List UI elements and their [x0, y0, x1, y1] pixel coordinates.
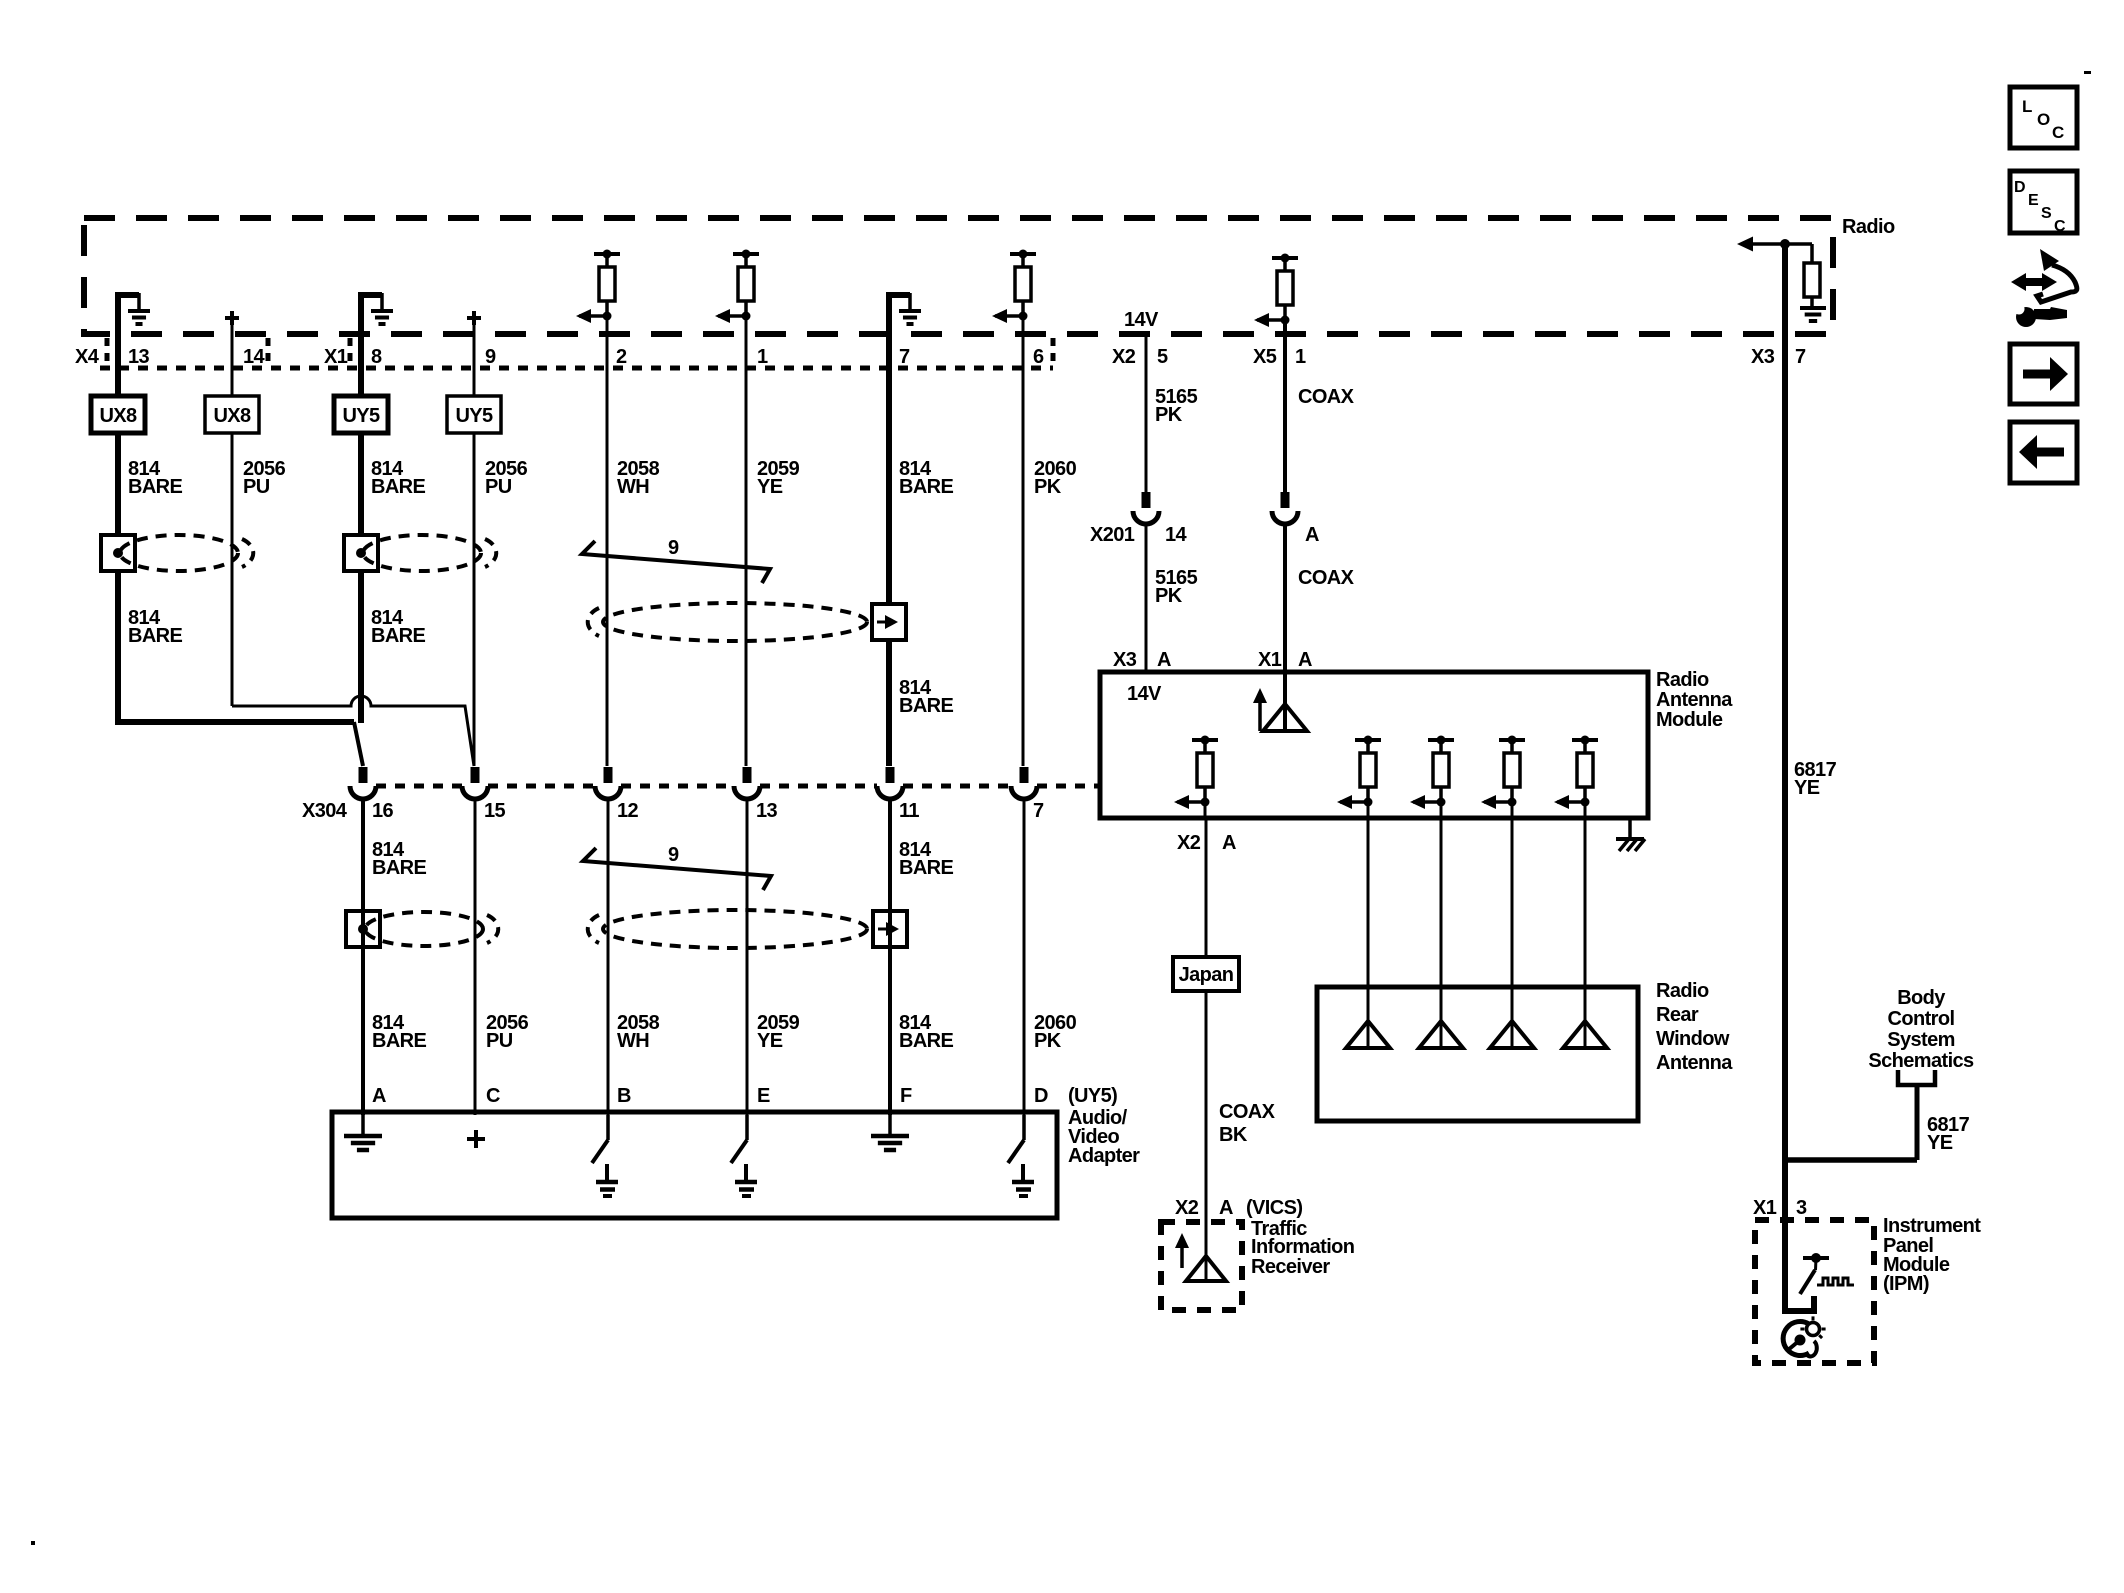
svg-text:A: A	[372, 1085, 386, 1107]
svg-text:BARE: BARE	[899, 857, 954, 879]
svg-text:Window: Window	[1656, 1028, 1730, 1050]
svg-text:UX8: UX8	[213, 405, 251, 427]
svg-text:A: A	[1305, 524, 1319, 546]
svg-text:BARE: BARE	[371, 625, 426, 647]
svg-text:COAX: COAX	[1298, 386, 1355, 408]
svg-text:COAX: COAX	[1298, 567, 1355, 589]
svg-text:YE: YE	[1794, 777, 1820, 799]
svg-text:9: 9	[485, 346, 496, 368]
svg-text:12: 12	[617, 800, 639, 822]
svg-text:A: A	[1298, 649, 1312, 671]
svg-text:Antenna: Antenna	[1656, 689, 1733, 711]
svg-text:YE: YE	[757, 1030, 783, 1052]
svg-text:D: D	[1034, 1085, 1048, 1107]
svg-text:BK: BK	[1219, 1124, 1248, 1146]
svg-text:WH: WH	[617, 476, 649, 498]
svg-text:WH: WH	[617, 1030, 649, 1052]
svg-text:7: 7	[899, 346, 910, 368]
svg-text:BARE: BARE	[372, 857, 427, 879]
svg-text:7: 7	[1795, 346, 1806, 368]
svg-text:14: 14	[1165, 524, 1188, 546]
svg-text:BARE: BARE	[372, 1030, 427, 1052]
svg-text:A: A	[1157, 649, 1171, 671]
svg-text:15: 15	[484, 800, 506, 822]
svg-text:D: D	[2014, 179, 2026, 196]
svg-text:X3: X3	[1751, 346, 1775, 368]
svg-text:B: B	[617, 1085, 631, 1107]
svg-text:COAX: COAX	[1219, 1101, 1276, 1123]
svg-text:L: L	[2022, 97, 2032, 116]
svg-text:5: 5	[1157, 346, 1168, 368]
svg-text:14: 14	[243, 346, 266, 368]
svg-text:BARE: BARE	[899, 1030, 954, 1052]
svg-text:8: 8	[371, 346, 382, 368]
svg-text:14V: 14V	[1127, 683, 1162, 705]
svg-text:X2: X2	[1175, 1197, 1199, 1219]
svg-text:X1: X1	[1753, 1197, 1777, 1219]
svg-text:S: S	[2041, 205, 2052, 222]
svg-text:O: O	[2037, 110, 2050, 129]
svg-text:PK: PK	[1034, 1030, 1062, 1052]
svg-text:BARE: BARE	[899, 476, 954, 498]
svg-text:Control: Control	[1888, 1008, 1955, 1030]
svg-text:BARE: BARE	[128, 476, 183, 498]
svg-text:Information: Information	[1251, 1236, 1354, 1258]
svg-text:PU: PU	[243, 476, 270, 498]
svg-text:X2: X2	[1112, 346, 1136, 368]
svg-text:14V: 14V	[1124, 309, 1159, 331]
svg-text:X1: X1	[1258, 649, 1282, 671]
svg-text:System: System	[1887, 1029, 1955, 1051]
svg-text:Module: Module	[1656, 709, 1723, 731]
svg-text:Radio: Radio	[1842, 216, 1895, 238]
svg-text:16: 16	[372, 800, 394, 822]
svg-text:(IPM): (IPM)	[1883, 1273, 1929, 1295]
svg-text:UX8: UX8	[99, 405, 137, 427]
svg-text:Schematics: Schematics	[1868, 1050, 1974, 1072]
svg-text:Rear: Rear	[1656, 1004, 1699, 1026]
svg-text:C: C	[2054, 218, 2066, 235]
svg-text:PK: PK	[1155, 585, 1183, 607]
svg-text:A: A	[1219, 1197, 1233, 1219]
svg-text:X1: X1	[324, 346, 348, 368]
svg-text:PU: PU	[485, 476, 512, 498]
svg-text:7: 7	[1033, 800, 1044, 822]
svg-text:Adapter: Adapter	[1068, 1145, 1140, 1167]
svg-text:UY5: UY5	[455, 405, 493, 427]
svg-text:11: 11	[899, 800, 919, 822]
svg-text:A: A	[1222, 832, 1236, 854]
svg-text:Radio: Radio	[1656, 980, 1709, 1002]
svg-text:X5: X5	[1253, 346, 1277, 368]
svg-text:UY5: UY5	[342, 405, 380, 427]
svg-text:YE: YE	[1927, 1132, 1953, 1154]
svg-text:1: 1	[757, 346, 768, 368]
svg-text:13: 13	[128, 346, 150, 368]
svg-text:1: 1	[1295, 346, 1306, 368]
svg-text:C: C	[486, 1085, 500, 1107]
svg-text:Instrument: Instrument	[1883, 1215, 1981, 1237]
svg-text:Radio: Radio	[1656, 669, 1709, 691]
svg-text:9: 9	[668, 844, 679, 866]
svg-text:2: 2	[616, 346, 627, 368]
svg-text:(UY5): (UY5)	[1068, 1085, 1117, 1107]
svg-text:PK: PK	[1155, 404, 1183, 426]
svg-text:Body: Body	[1897, 987, 1946, 1009]
svg-text:PU: PU	[486, 1030, 513, 1052]
svg-text:6: 6	[1033, 346, 1044, 368]
svg-text:3: 3	[1796, 1197, 1807, 1219]
svg-text:E: E	[2028, 192, 2039, 209]
svg-text:C: C	[2052, 123, 2064, 142]
svg-text:BARE: BARE	[128, 625, 183, 647]
svg-text:X304: X304	[302, 800, 348, 822]
svg-text:Antenna: Antenna	[1656, 1052, 1733, 1074]
svg-text:13: 13	[756, 800, 778, 822]
svg-text:X4: X4	[75, 346, 100, 368]
svg-text:BARE: BARE	[371, 476, 426, 498]
svg-text:9: 9	[668, 537, 679, 559]
svg-text:X201: X201	[1090, 524, 1135, 546]
svg-text:BARE: BARE	[899, 695, 954, 717]
svg-text:E: E	[757, 1085, 770, 1107]
svg-text:Receiver: Receiver	[1251, 1256, 1330, 1278]
svg-text:YE: YE	[757, 476, 783, 498]
svg-text:PK: PK	[1034, 476, 1062, 498]
svg-text:X2: X2	[1177, 832, 1201, 854]
svg-text:Japan: Japan	[1179, 964, 1234, 986]
svg-text:F: F	[900, 1085, 912, 1107]
svg-text:X3: X3	[1113, 649, 1137, 671]
svg-text:(VICS): (VICS)	[1246, 1197, 1302, 1219]
